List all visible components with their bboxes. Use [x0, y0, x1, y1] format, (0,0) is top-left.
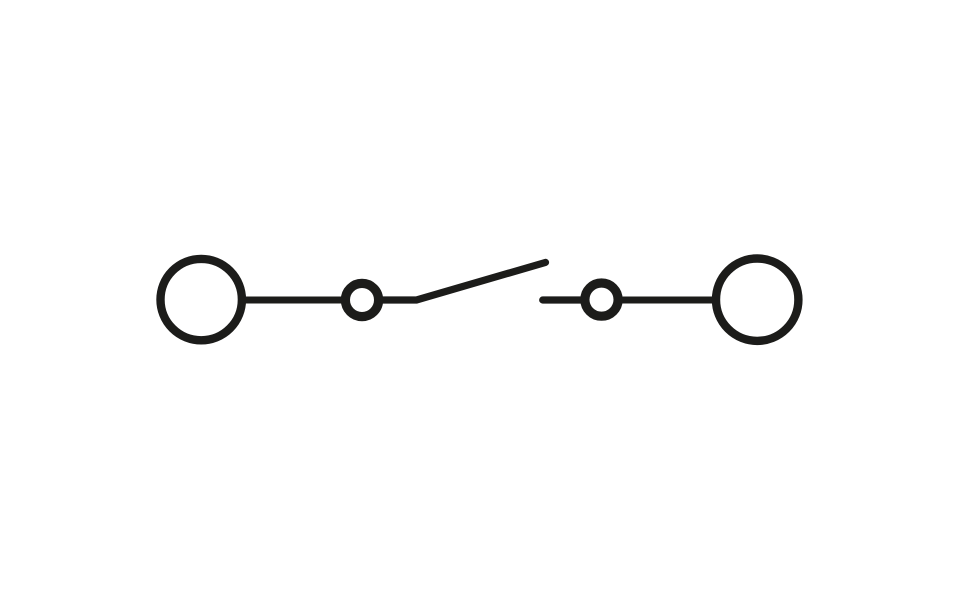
wire [614, 297, 716, 304]
wire [543, 296, 590, 303]
contact circle right [585, 283, 618, 316]
terminal circle left [161, 259, 242, 340]
contact circle left [345, 283, 378, 316]
terminal circle right [716, 259, 798, 341]
wire [378, 262, 546, 300]
wire [242, 297, 346, 304]
